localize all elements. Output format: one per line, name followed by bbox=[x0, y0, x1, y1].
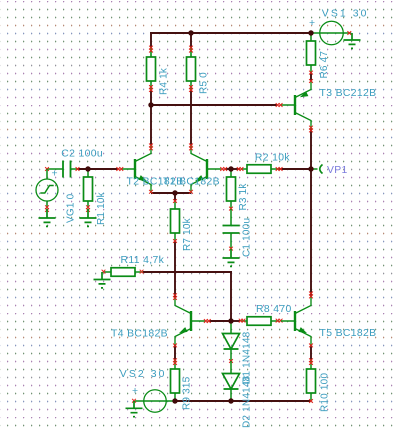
transistor T5 bbox=[281, 292, 313, 348]
source VS1 bbox=[311, 21, 351, 45]
junction node B (T1 base/R3/R2) bbox=[228, 166, 233, 171]
label VS1 name bbox=[322, 9, 369, 20]
resistor R11 bbox=[102, 268, 144, 277]
wire R7 to T4 collector bbox=[174, 241, 176, 297]
ground C1 bbox=[223, 249, 240, 266]
capacitor C1 bbox=[223, 209, 240, 251]
svg-text:R7 10k: R7 10k bbox=[182, 217, 193, 251]
transistor T4 bbox=[173, 293, 211, 347]
resistor R2 bbox=[237, 165, 283, 174]
label R7 value bbox=[182, 217, 193, 251]
wire emitter junction row bbox=[151, 192, 191, 194]
resistor R7 bbox=[171, 199, 180, 243]
wire R4 bottom to node bbox=[150, 89, 152, 106]
label VS1 plus bbox=[309, 18, 315, 29]
diode D2 bbox=[223, 361, 240, 401]
transistor T1 bbox=[189, 144, 227, 194]
svg-text:R1 10k: R1 10k bbox=[96, 191, 107, 225]
svg-text:C2 100u: C2 100u bbox=[61, 149, 103, 160]
diode D1 bbox=[223, 321, 240, 363]
wire T1 base to node B bbox=[225, 168, 240, 170]
output pin VP1 bbox=[311, 165, 323, 174]
label T5 name bbox=[320, 328, 377, 339]
label R4 value bbox=[158, 67, 169, 95]
ground VS1 bbox=[344, 33, 361, 48]
ground VS2 bbox=[126, 401, 143, 417]
svg-text:R2 10k: R2 10k bbox=[255, 153, 290, 164]
label R5 value bbox=[198, 72, 209, 94]
svg-text:T1 BC182B: T1 BC182B bbox=[163, 177, 220, 188]
wire T3 collector to output node bbox=[310, 129, 312, 169]
label VS2 name bbox=[120, 369, 167, 380]
label C2 value bbox=[61, 149, 103, 160]
svg-text:T4 BC182B: T4 BC182B bbox=[111, 329, 168, 340]
svg-text:R4 1k: R4 1k bbox=[158, 67, 169, 95]
label VP1 name bbox=[327, 165, 348, 176]
wire T3 base rail bbox=[150, 104, 277, 106]
wire R11 row bbox=[143, 271, 232, 273]
resistor R1 bbox=[84, 169, 93, 212]
junction node T4 base/D1/R8 bbox=[228, 318, 233, 323]
transistor T3 bbox=[276, 79, 313, 132]
wire R5 top bbox=[190, 32, 192, 48]
wire R5 to T1 collector bbox=[190, 89, 192, 145]
label T1 name bbox=[163, 177, 220, 188]
label R2 value bbox=[255, 153, 290, 164]
junction node R4/T2 collector bbox=[148, 102, 153, 107]
label R11 value bbox=[121, 255, 165, 266]
svg-text:C1 100u: C1 100u bbox=[242, 218, 253, 257]
svg-text:R11 4,7k: R11 4,7k bbox=[121, 255, 165, 266]
wire bottom rail bbox=[175, 400, 311, 402]
label C1 value bbox=[242, 218, 253, 257]
svg-text:VS1 30: VS1 30 bbox=[322, 9, 369, 20]
junction node emitters/R7 bbox=[172, 190, 177, 195]
wire R2 to output node bbox=[279, 168, 311, 170]
ground VG1 bbox=[39, 209, 56, 226]
svg-text:+: + bbox=[309, 18, 315, 29]
svg-text:VG1 0: VG1 0 bbox=[65, 193, 76, 223]
svg-text:R5 0: R5 0 bbox=[198, 72, 209, 94]
wire top rail bbox=[150, 32, 311, 48]
label R8 value bbox=[256, 304, 292, 315]
ground R11 bbox=[94, 272, 111, 288]
wire node F down to T4 base node bbox=[230, 271, 232, 321]
svg-text:D2 1N4148: D2 1N4148 bbox=[242, 375, 253, 428]
label R1 value bbox=[96, 191, 107, 225]
label D2 value bbox=[242, 375, 253, 428]
wire R8 left stub bbox=[230, 320, 240, 322]
svg-text:VS2 30: VS2 30 bbox=[120, 369, 167, 380]
svg-text:T3 BC212B: T3 BC212B bbox=[320, 88, 377, 99]
svg-text:R9 315: R9 315 bbox=[181, 376, 192, 410]
generator VG1 bbox=[36, 169, 58, 212]
wire T4 emitter to R9 bbox=[174, 345, 176, 361]
resistor R8 bbox=[239, 317, 283, 326]
wire input node to T2 base bbox=[77, 168, 118, 170]
junction node VS2/R9 bbox=[172, 398, 177, 403]
svg-text:T5 BC182B: T5 BC182B bbox=[320, 328, 377, 339]
junction node VP1 output bbox=[308, 166, 313, 171]
junction node input (C2/R1/T2) bbox=[85, 166, 90, 171]
wire output node to T5 collector bbox=[310, 169, 312, 297]
wire emitter node to R7 bbox=[174, 192, 176, 201]
label VS2 plus bbox=[132, 386, 138, 397]
svg-text:R8 470: R8 470 bbox=[256, 304, 292, 315]
svg-text:R6 47: R6 47 bbox=[319, 51, 330, 79]
junction node top rail R5 bbox=[188, 30, 193, 35]
label VG1 name bbox=[65, 193, 76, 223]
ground R1 bbox=[80, 209, 97, 226]
label D1 value bbox=[242, 331, 253, 384]
wire node to T2 collector bbox=[150, 104, 152, 145]
label VG1 plus bbox=[52, 169, 58, 180]
label R10 value bbox=[319, 373, 330, 412]
label R6 value bbox=[319, 51, 330, 79]
svg-text:VP1: VP1 bbox=[327, 165, 348, 176]
junction node VS1 bbox=[308, 30, 313, 35]
wire T4 base row bbox=[209, 320, 232, 322]
label T3 name bbox=[320, 88, 377, 99]
resistor R5 bbox=[187, 46, 196, 92]
svg-text:R3 1k: R3 1k bbox=[238, 183, 249, 211]
resistor R3 bbox=[227, 169, 236, 211]
transistor T2 bbox=[116, 144, 152, 194]
capacitor C2 bbox=[45, 161, 79, 178]
resistor R4 bbox=[147, 46, 156, 92]
wire R6 to T3 emitter bbox=[310, 72, 312, 81]
svg-text:+: + bbox=[132, 386, 138, 397]
label R9 value bbox=[181, 376, 192, 410]
label T4 name bbox=[111, 329, 168, 340]
label T2 name bbox=[127, 177, 184, 188]
label R3 value bbox=[238, 183, 249, 211]
svg-text:+: + bbox=[52, 169, 58, 180]
svg-text:R10 100: R10 100 bbox=[319, 373, 330, 412]
resistor R10 bbox=[307, 358, 316, 403]
wire T5 emitter to R10 bbox=[310, 345, 312, 361]
resistor R6 bbox=[307, 33, 316, 75]
resistor R9 bbox=[171, 358, 180, 401]
junction node diode bottom bbox=[228, 398, 233, 403]
source VS2 bbox=[132, 390, 175, 413]
